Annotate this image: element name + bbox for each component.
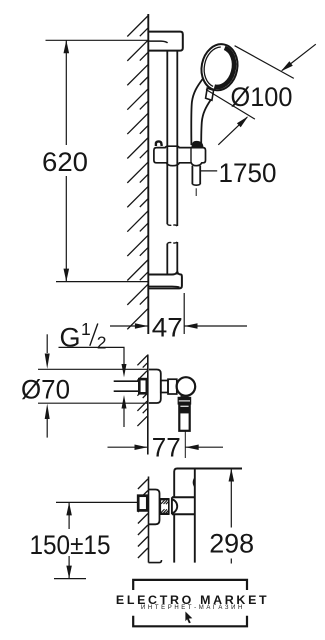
hose centerline tail xyxy=(195,188,197,196)
svg-text:150±15: 150±15 xyxy=(30,530,111,560)
620 top extension line xyxy=(46,39,148,41)
svg-text:ИНТЕРНЕТ-МАГАЗИН: ИНТЕРНЕТ-МАГАЗИН xyxy=(141,605,245,611)
tube dark band xyxy=(179,407,189,414)
svg-text:1: 1 xyxy=(81,319,91,339)
tube centerline xyxy=(184,432,186,459)
slider clamp lever xyxy=(156,141,162,146)
valve body side xyxy=(172,496,195,498)
wall xyxy=(147,14,149,334)
face inner rim line xyxy=(201,45,221,87)
hose connector nub xyxy=(206,88,214,100)
47 dimension xyxy=(147,310,149,334)
logo box bottom xyxy=(133,616,247,627)
valve connector seg2 xyxy=(168,379,177,394)
svg-text:1750: 1750 xyxy=(219,158,277,188)
bottom bracket xyxy=(148,272,182,288)
logo box top xyxy=(133,580,247,590)
valve dome side xyxy=(172,497,177,514)
wall hatching top xyxy=(127,16,148,329)
cursor xyxy=(185,612,192,624)
supply elbow behind wall xyxy=(138,496,147,511)
top bracket seam xyxy=(148,41,167,43)
supply pipe xyxy=(114,380,139,382)
valve connector seg1 xyxy=(161,381,168,393)
298 dimension xyxy=(230,469,232,528)
outlet nut dark xyxy=(178,397,192,405)
arrow down 620 xyxy=(64,269,70,282)
slider holder body xyxy=(154,146,206,166)
dark crescent on pipe xyxy=(193,477,195,488)
joint under circle xyxy=(181,395,189,397)
Ø100 dimension lower segment xyxy=(218,117,247,145)
Ø70 dimension xyxy=(38,368,148,370)
rail break xyxy=(167,224,171,225)
svg-text:Ø70: Ø70 xyxy=(21,375,70,405)
G1/2 leader xyxy=(59,347,125,364)
svg-text:2: 2 xyxy=(97,332,107,352)
handle left edge xyxy=(191,79,203,146)
supply nut xyxy=(139,379,147,393)
wall bottom foot xyxy=(149,560,162,563)
Ø100 upper extension line xyxy=(235,46,294,79)
top bracket xyxy=(148,32,183,51)
Ø100 lower extension line xyxy=(206,90,255,120)
dimension 620 line xyxy=(65,40,67,145)
arrow up 620 xyxy=(64,40,70,53)
77 dimension xyxy=(108,446,148,448)
1750 leader xyxy=(201,170,217,172)
escutcheon side xyxy=(149,490,160,525)
nut knurl marks xyxy=(161,500,169,513)
hex nut side xyxy=(160,499,169,514)
svg-text:Ø100: Ø100 xyxy=(231,82,293,112)
Ø100 dimension upper segment xyxy=(282,44,316,70)
wall middle xyxy=(147,355,149,455)
svg-text:620: 620 xyxy=(42,147,88,177)
svg-text:77: 77 xyxy=(152,432,181,462)
pipe side view xyxy=(174,469,242,498)
wall bottom xyxy=(148,477,150,563)
620 bottom extension line xyxy=(56,281,148,283)
valve head circle xyxy=(177,377,196,396)
face dark edge band xyxy=(214,47,237,89)
hose entry dark crescent xyxy=(191,141,203,148)
rail lower segment xyxy=(166,244,168,275)
slider hose section divider xyxy=(190,148,192,163)
shower head face outer xyxy=(198,41,242,93)
handle right edge / hose right xyxy=(201,100,211,145)
svg-text:47: 47 xyxy=(152,312,183,342)
outlet tube xyxy=(179,405,189,431)
svg-text:298: 298 xyxy=(209,528,254,558)
150±15 dimension xyxy=(56,501,138,503)
bottom bracket seam xyxy=(148,285,179,288)
rail upper segment xyxy=(166,51,168,225)
escutcheon xyxy=(149,370,161,404)
hose below slider xyxy=(191,166,193,185)
